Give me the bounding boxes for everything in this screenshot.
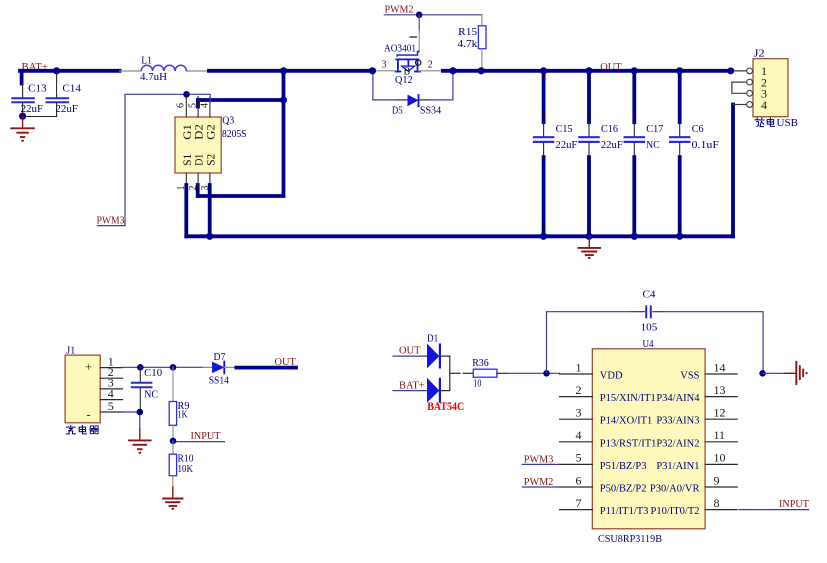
- capacitor C10: [131, 367, 163, 412]
- wire ground rail: [186, 234, 733, 238]
- svg-text:C4: C4: [643, 288, 656, 300]
- wire PWM2 net: [384, 15, 482, 26]
- svg-text:SS34: SS34: [420, 105, 442, 117]
- junction node INPUT: [170, 438, 177, 445]
- svg-text:P10/IT0/T2: P10/IT0/T2: [651, 506, 700, 517]
- svg-text:11: 11: [714, 428, 726, 442]
- svg-text:S2: S2: [204, 154, 218, 166]
- svg-text:10: 10: [714, 451, 726, 465]
- svg-text:J2: J2: [754, 48, 765, 60]
- svg-text:VSS: VSS: [680, 371, 699, 382]
- net label BAT+ (D1): [393, 379, 427, 391]
- svg-text:10K: 10K: [178, 463, 194, 475]
- svg-text:OUT: OUT: [275, 356, 297, 368]
- svg-text:4.7uH: 4.7uH: [140, 71, 167, 83]
- net label BAT+: [22, 61, 48, 73]
- svg-text:INPUT: INPUT: [191, 430, 221, 442]
- svg-text:P30/A0/VR: P30/A0/VR: [650, 484, 700, 495]
- svg-text:NC: NC: [144, 389, 158, 401]
- junction node C16 top: [585, 67, 592, 74]
- svg-text:P34/AIN4: P34/AIN4: [656, 393, 700, 404]
- svg-text:Q3: Q3: [222, 115, 234, 127]
- svg-text:3: 3: [382, 60, 387, 71]
- svg-text:6: 6: [576, 473, 582, 487]
- label 放电USB: [755, 117, 798, 129]
- junction node C10 bottom: [137, 409, 144, 416]
- connector J1: [65, 344, 122, 423]
- svg-text:BAT54C: BAT54C: [427, 401, 464, 413]
- resistor R15: [457, 26, 486, 69]
- ground (R10): [162, 487, 183, 509]
- resistor R9 1K: [169, 367, 190, 441]
- svg-text:4: 4: [576, 428, 582, 442]
- svg-text:BAT+: BAT+: [399, 379, 425, 391]
- svg-text:D1: D1: [427, 332, 438, 344]
- svg-text:PWM3: PWM3: [97, 214, 125, 226]
- inductor L1: [120, 54, 210, 83]
- junction node R9 top: [170, 364, 177, 371]
- svg-text:6: 6: [176, 103, 187, 108]
- junction node C10 top: [137, 364, 144, 371]
- svg-text:14: 14: [714, 360, 726, 374]
- wire PWM3 net: [97, 94, 210, 225]
- wire J1 pin5 to gnd: [123, 412, 140, 429]
- junction node C15 bottom: [540, 233, 547, 240]
- svg-text:L1: L1: [141, 54, 152, 66]
- svg-text:J1: J1: [66, 344, 75, 356]
- svg-text:U4: U4: [643, 338, 655, 350]
- capacitor C17: [624, 71, 664, 237]
- net label PWM3: [97, 214, 125, 226]
- svg-text:7: 7: [576, 496, 582, 510]
- svg-text:OUT: OUT: [600, 61, 622, 73]
- junction node C17 top: [631, 67, 638, 74]
- ground (output rail): [578, 236, 602, 258]
- svg-text:NC: NC: [646, 139, 660, 151]
- svg-text:PWM3: PWM3: [524, 453, 554, 465]
- wire S2 down: [208, 185, 212, 236]
- ground (C13/C14): [10, 116, 34, 141]
- capacitor C15: [533, 71, 578, 237]
- svg-text:AO3401: AO3401: [384, 42, 416, 54]
- junction node C14 tap: [53, 67, 60, 74]
- wire rail to J2 pin4: [733, 105, 746, 237]
- svg-text:CSU8RP3119B: CSU8RP3119B: [598, 533, 662, 545]
- svg-text:SS14: SS14: [209, 375, 230, 387]
- svg-text:1: 1: [576, 360, 582, 374]
- transistor Q12 AO3401: [375, 15, 444, 86]
- svg-text:105: 105: [641, 321, 658, 333]
- svg-text:USB: USB: [777, 117, 799, 129]
- label 充电器: [66, 425, 98, 434]
- junction node C13 gnd: [19, 113, 26, 120]
- wire J1 pin1 to D7: [123, 366, 213, 368]
- svg-text:P50/BZ/P2: P50/BZ/P2: [600, 484, 647, 495]
- wire R36 to U4 pin1: [507, 372, 559, 374]
- svg-text:P14/XO/IT1: P14/XO/IT1: [600, 416, 653, 427]
- svg-text:D7: D7: [214, 351, 226, 363]
- svg-text:1K: 1K: [178, 409, 188, 421]
- svg-text:22uF: 22uF: [601, 139, 623, 151]
- svg-text:10: 10: [473, 377, 482, 389]
- diode D7 SS14: [209, 351, 237, 387]
- net label OUT: [600, 61, 622, 73]
- capacitor C4 105: [547, 288, 764, 373]
- capacitor C13: [11, 82, 47, 116]
- svg-text:5: 5: [108, 399, 114, 413]
- wire D2 to bus: [198, 100, 284, 107]
- svg-text:4: 4: [761, 98, 767, 112]
- diode D5 SS34: [373, 71, 453, 117]
- junction node bus/D5 right: [449, 67, 456, 74]
- svg-text:P31/AIN1: P31/AIN1: [656, 461, 699, 472]
- svg-text:C17: C17: [646, 123, 663, 135]
- net label PWM2: [385, 4, 414, 16]
- svg-text:2: 2: [188, 186, 199, 191]
- svg-text:P13/RST/IT1: P13/RST/IT1: [600, 438, 657, 449]
- junction node C15 top: [540, 67, 547, 74]
- svg-text:8: 8: [714, 496, 720, 510]
- svg-text:22uF: 22uF: [55, 103, 78, 115]
- junction node PWM2/gate: [416, 12, 423, 19]
- wire BAT+ bus: [20, 71, 120, 84]
- wire main bus (Q12 to J2): [443, 69, 731, 73]
- svg-text:C10: C10: [144, 367, 162, 379]
- svg-text:VDD: VDD: [600, 371, 623, 382]
- svg-text:D5: D5: [392, 105, 403, 117]
- svg-text:G2: G2: [204, 124, 218, 140]
- svg-text:Q12: Q12: [395, 74, 413, 86]
- svg-text:C15: C15: [556, 123, 573, 135]
- svg-text:PWM2: PWM2: [524, 476, 554, 488]
- resistor R10 10K: [169, 441, 194, 487]
- transistor Q3 8205S: [175, 97, 247, 188]
- ground (VSS): [763, 361, 807, 385]
- svg-text:2: 2: [576, 383, 582, 397]
- svg-text:4: 4: [199, 103, 210, 108]
- svg-text:5: 5: [187, 103, 198, 108]
- svg-text:0.1uF: 0.1uF: [692, 139, 720, 151]
- svg-text:8205S: 8205S: [222, 128, 247, 140]
- resistor R36 10: [463, 357, 507, 389]
- junction node R15/bus: [478, 67, 485, 74]
- net label OUT (D1): [393, 345, 427, 357]
- svg-text:22uF: 22uF: [555, 139, 577, 151]
- svg-text:3: 3: [576, 406, 582, 420]
- svg-text:P51/BZ/P3: P51/BZ/P3: [600, 461, 647, 472]
- svg-text:P15/XIN/IT1: P15/XIN/IT1: [600, 393, 656, 404]
- connector J2: [747, 48, 788, 117]
- wire C13/C14 bottom join: [23, 116, 57, 118]
- junction node VDD: [543, 370, 550, 377]
- wire bus to J2 pin1: [727, 67, 746, 74]
- wire Q3 drain bus: [198, 71, 284, 196]
- junction node bus/Q3 drain: [280, 67, 287, 74]
- net label INPUT (U4): [739, 498, 809, 510]
- junction node bus/D5 left: [369, 67, 376, 74]
- wire OUT stub: [236, 366, 296, 370]
- junction node C16 bottom: [585, 233, 592, 240]
- junction node D2: [280, 96, 287, 103]
- junction node VSS: [759, 370, 766, 377]
- capacitor C14: [46, 72, 82, 117]
- wire S1 down: [184, 185, 188, 236]
- svg-text:-: -: [87, 407, 91, 421]
- svg-text:12: 12: [714, 406, 726, 420]
- capacitor C16: [578, 71, 623, 237]
- ground (J1): [128, 429, 152, 453]
- svg-text:13: 13: [714, 383, 726, 397]
- junction node G1: [183, 91, 190, 98]
- svg-text:2: 2: [428, 60, 433, 71]
- svg-text:OUT: OUT: [399, 345, 421, 357]
- junction node C6 bottom: [676, 233, 683, 240]
- svg-text:C14: C14: [62, 82, 81, 94]
- net label INPUT: [173, 430, 224, 442]
- junction node S2/rail: [206, 233, 213, 240]
- wire main bus (L1 to Q12): [209, 69, 373, 73]
- junction node C17 bottom: [631, 233, 638, 240]
- net label OUT (charger): [275, 356, 297, 368]
- junction node C6 top: [676, 67, 683, 74]
- diode D1 BAT54C: [427, 332, 464, 413]
- IC U4 CSU8RP3119B: [560, 338, 738, 545]
- net label PWM2 (U4): [522, 476, 559, 488]
- svg-text:5: 5: [576, 451, 582, 465]
- wire J2 pins2-3 jumper: [732, 82, 746, 93]
- net label PWM3 (U4): [522, 453, 559, 465]
- Q3 pin numbers 6 5 4: [176, 103, 211, 108]
- svg-text:C6: C6: [692, 123, 704, 135]
- svg-text:C13: C13: [28, 82, 47, 94]
- svg-text:INPUT: INPUT: [779, 498, 809, 510]
- svg-text:9: 9: [714, 473, 720, 487]
- Q3 pin numbers 1 2 3: [176, 186, 211, 191]
- svg-text:+: +: [85, 359, 92, 373]
- svg-text:P32/AIN2: P32/AIN2: [656, 438, 699, 449]
- svg-text:P33/AIN3: P33/AIN3: [656, 416, 699, 427]
- svg-text:P11/IT1/T3: P11/IT1/T3: [600, 506, 649, 517]
- svg-text:4.7k: 4.7k: [457, 38, 478, 50]
- svg-text:R36: R36: [472, 357, 489, 369]
- svg-text:PWM2: PWM2: [385, 4, 414, 16]
- svg-text:R15: R15: [458, 26, 478, 38]
- capacitor C6: [669, 71, 719, 237]
- svg-text:C16: C16: [601, 123, 618, 135]
